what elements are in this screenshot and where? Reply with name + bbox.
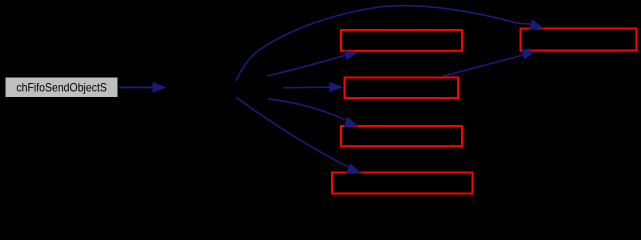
wire chFifoSendObjectS -> hidden node (119, 82, 167, 93)
svg-text:chFifoSendObjectS: chFifoSendObjectS (16, 80, 107, 94)
wire hidden node -> box2 (283, 82, 343, 92)
node chFifoSendObjectS (current, grey) (5, 77, 118, 98)
wire hidden node -> box3 (268, 99, 359, 127)
box5 (red, truncated node) (521, 29, 637, 51)
wire hidden node -> box5 (top arc) (236, 6, 544, 81)
wire hidden node -> box4 (236, 97, 361, 173)
wire box2 -> box5 (443, 49, 536, 76)
box3 (red, truncated node) (341, 126, 462, 146)
box1 (red, truncated node) (341, 30, 462, 51)
box4 (red, truncated node) (332, 173, 473, 194)
wire hidden node -> box1 (267, 50, 359, 76)
box2 (red, truncated node) (345, 78, 459, 99)
